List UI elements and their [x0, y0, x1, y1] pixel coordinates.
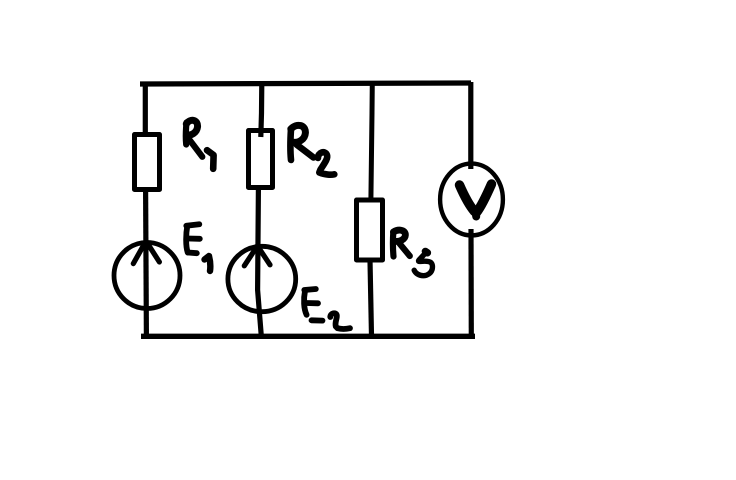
label R2 — [290, 125, 334, 174]
arrow E1 — [133, 241, 159, 264]
voltmeter V glyph — [460, 185, 475, 212]
arrow E2 — [244, 246, 270, 266]
wire branch3 bottom — [370, 260, 372, 336]
resistor R2 — [249, 131, 273, 188]
label R3 — [393, 230, 432, 276]
wire branch1 top — [143, 82, 148, 134]
label E1 — [186, 224, 210, 271]
source E2 — [228, 246, 296, 311]
wire branch4 top — [468, 82, 473, 169]
wire top bus — [140, 83, 471, 84]
wire branch1 bottom — [143, 190, 149, 336]
wire bottom bus — [141, 334, 475, 339]
resistor R3 — [357, 200, 383, 260]
voltmeter circle — [440, 164, 503, 236]
wire branch4 bottom — [468, 229, 473, 336]
wire branch3 top — [371, 82, 372, 200]
source E1 — [114, 243, 180, 309]
resistor R1 — [135, 135, 160, 190]
wire branch2 bottom — [258, 190, 262, 336]
wire branch2 top — [261, 82, 262, 137]
label E2 — [304, 289, 350, 329]
label R1 — [186, 120, 214, 168]
